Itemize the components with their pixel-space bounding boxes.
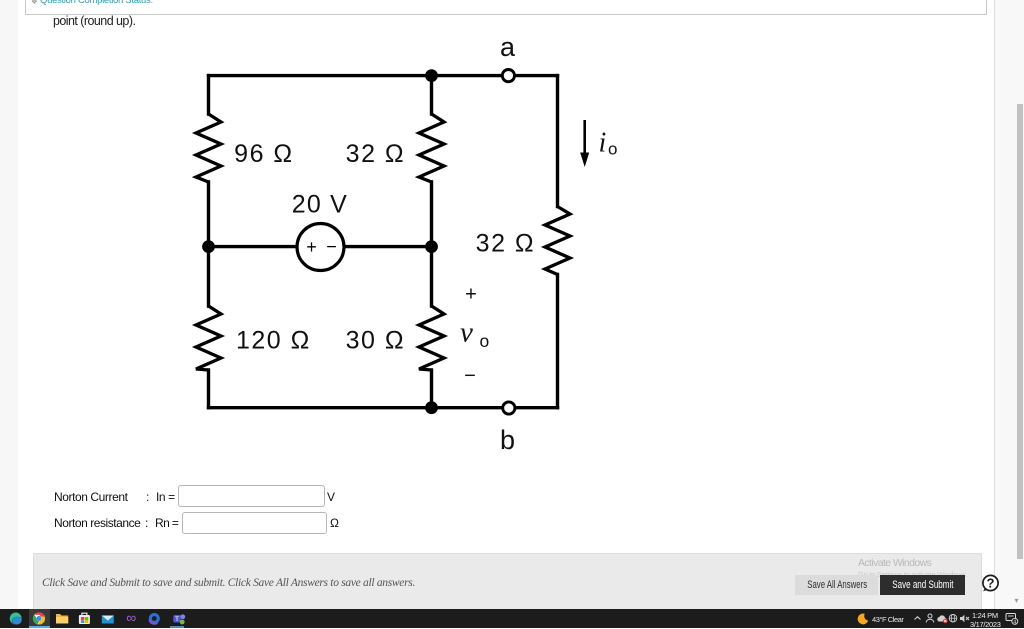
- footer instruction text: [42, 577, 415, 589]
- terminal a open circle: [502, 70, 514, 82]
- scrollbar thumb: [1017, 104, 1023, 559]
- wire top (node a rail): [209, 74, 558, 77]
- taskbar teams underline: [170, 626, 184, 628]
- svg-text:∞: ∞: [126, 611, 136, 626]
- help icon: [980, 573, 1001, 594]
- tray icon onedrive cloud: [936, 614, 948, 624]
- wire right branch vertical: [556, 76, 559, 207]
- svg-text:32 Ω: 32 Ω: [346, 140, 405, 168]
- svg-text:20 V: 20 V: [292, 190, 348, 218]
- voltage source V1 20V circle: [297, 224, 344, 271]
- tray time: [972, 611, 998, 620]
- activate windows watermark: [858, 557, 931, 569]
- junction dot middle middle: [425, 240, 438, 253]
- svg-text:a: a: [500, 32, 516, 62]
- resistor 30ohm: [419, 306, 444, 370]
- tray notification icon: [1005, 612, 1019, 626]
- svg-text:v: v: [460, 317, 473, 349]
- junction dot left middle: [202, 240, 215, 253]
- svg-text:32 Ω: 32 Ω: [476, 229, 535, 257]
- taskbar chrome active highlight: [29, 609, 50, 628]
- norton current input field: [178, 485, 325, 507]
- current io arrow: [583, 120, 586, 155]
- point (round up).: [53, 15, 135, 28]
- svg-text:120 Ω: 120 Ω: [236, 327, 311, 355]
- button save and submit: [880, 575, 965, 595]
- mail icon: [102, 616, 114, 624]
- folder icon: [56, 614, 68, 624]
- question completion status header box: [25, 0, 987, 15]
- svg-text:+: +: [306, 237, 317, 257]
- norton resistance row label: [54, 517, 140, 530]
- wire bottom (node b rail): [209, 406, 558, 409]
- qcs teal label: [40, 0, 153, 6]
- loop icon: [149, 613, 160, 624]
- taskbar: [0, 609, 1024, 628]
- tray chevron: [913, 615, 922, 622]
- qcs icon: [31, 0, 39, 6]
- svg-text:T: T: [175, 616, 179, 623]
- svg-text:4: 4: [1013, 619, 1016, 625]
- wire middle horizontal (source row): [209, 245, 432, 248]
- junction dot top middle: [425, 69, 438, 82]
- svg-text:96 Ω: 96 Ω: [234, 140, 293, 168]
- button save all answers: [795, 575, 878, 595]
- edge icon: [10, 613, 22, 625]
- resistor 32ohm top middle: [419, 114, 444, 182]
- svg-text:i: i: [599, 128, 607, 159]
- svg-text:+: +: [465, 284, 477, 306]
- svg-text:−: −: [326, 237, 337, 257]
- taskbar icons: [8, 611, 188, 626]
- tray icon person: [925, 613, 935, 624]
- norton resistance input field: [182, 512, 327, 534]
- footer save bar: [33, 553, 982, 612]
- scrollbar track: [994, 0, 1024, 610]
- scrollbar down arrow: [1015, 596, 1019, 605]
- svg-text:o: o: [608, 140, 617, 159]
- svg-text:30 Ω: 30 Ω: [346, 327, 405, 355]
- taskbar tray: weather moon: [857, 613, 869, 625]
- svg-text:−: −: [464, 365, 476, 387]
- chrome icon: [33, 612, 45, 624]
- svg-text:b: b: [500, 425, 515, 455]
- norton current row label: [54, 491, 128, 504]
- resistor 96ohm: [196, 114, 221, 182]
- junction dot bottom middle: [425, 401, 438, 414]
- wire left branch vertical: [207, 76, 210, 114]
- tray weather text: [872, 615, 903, 624]
- svg-text:?: ?: [987, 576, 995, 591]
- svg-text:o: o: [480, 331, 490, 351]
- wire middle branch vertical: [430, 76, 433, 114]
- tray icon globe: [948, 613, 958, 624]
- terminal b open circle: [503, 402, 515, 414]
- teams icon: [173, 615, 181, 623]
- resistor 32ohm right branch: [545, 207, 570, 275]
- left grey strip: [0, 0, 18, 610]
- tray icon speaker muted: [959, 613, 970, 624]
- store icon: [79, 615, 90, 624]
- resistor 120ohm: [196, 306, 221, 370]
